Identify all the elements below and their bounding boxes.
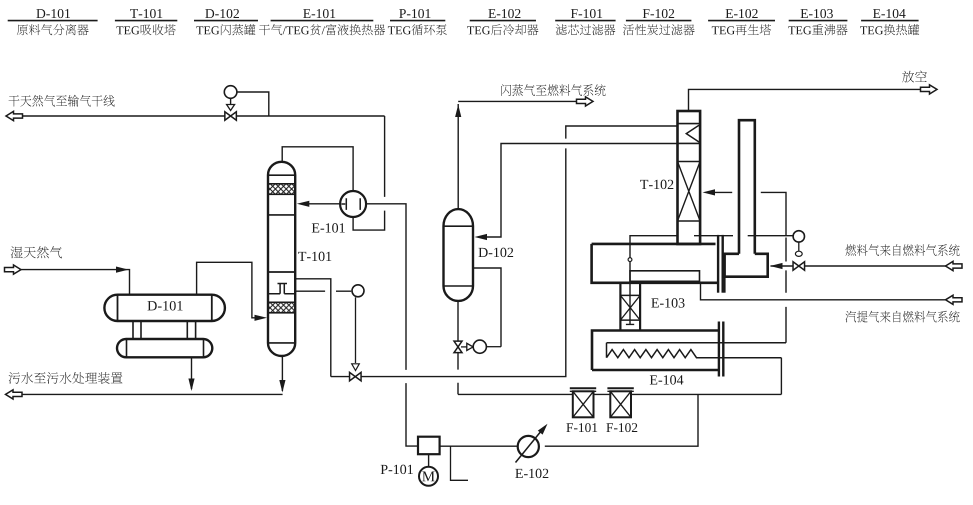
legend name TEG吸收塔 [116, 24, 175, 35]
label T-102 [640, 180, 673, 189]
label T-101 [298, 252, 331, 261]
wire lean TEG into T-101 top [304, 203, 340, 205]
wire dry gas line [23, 115, 385, 117]
legend underline P-101 [390, 20, 445, 22]
open arrow dry gas out [6, 111, 23, 120]
legend tag D-102 [205, 9, 239, 18]
legend tag D-101 [36, 9, 70, 18]
temperature instrument line [694, 235, 793, 237]
T-101 mesh pad top [268, 184, 295, 195]
column T-102 shell [678, 111, 701, 244]
legend tag E-103 [801, 9, 833, 18]
legend name 滤芯过滤器 [556, 24, 616, 35]
open arrow waste water out [6, 390, 23, 399]
label fuel gas from fuel gas system [845, 244, 959, 256]
legend tag E-104 [873, 9, 906, 18]
E-103 fire tube [630, 271, 700, 282]
open arrow fuel gas in [946, 261, 963, 270]
wire wet gas feed line [21, 270, 130, 294]
vessel T-101 shell [268, 175, 295, 343]
label E-104 [650, 375, 684, 384]
label dry gas to pipeline [9, 95, 115, 107]
P-101 motor link [428, 454, 430, 467]
open arrow stripping gas in [946, 295, 963, 304]
surge drum E-104 shell [592, 331, 719, 371]
label D-101 [148, 301, 183, 311]
wire E-102 to P-101 [440, 445, 523, 447]
legend tag P-101 [399, 9, 430, 18]
P-101 motor circle [419, 467, 438, 486]
label stripping gas from fuel gas system [845, 311, 959, 323]
label vent [902, 71, 927, 83]
separator D-101 lower drum [117, 339, 212, 357]
wire rich/lean filter header [458, 393, 781, 395]
legend underline D-102 [194, 20, 258, 22]
control valve PCV stem and wedge [230, 98, 232, 106]
wire dry gas riser from E-101 [353, 116, 385, 230]
wire float to level tap [486, 346, 501, 348]
filter F-101 cap [570, 387, 596, 389]
label F-101 [566, 423, 597, 432]
T-101 mesh pad bottom [268, 302, 295, 313]
filter F-101 X mark [573, 391, 594, 417]
label D-102 [479, 248, 514, 257]
E-104 heating coil [607, 343, 787, 358]
cooler E-102 circle [518, 436, 539, 457]
control valve PCV actuator circle [224, 86, 237, 99]
wire rich TEG from T-102 coil to D-102 [481, 144, 678, 238]
legend underline F-102 [626, 20, 692, 22]
open arrow flash gas out [577, 97, 594, 106]
filter F-102 body [610, 391, 631, 417]
legend underline E-101 [271, 20, 374, 22]
filter F-102 X mark [610, 391, 631, 417]
E-104 right flange [718, 322, 720, 377]
legend tag F-101 [571, 9, 602, 18]
T-101 chimney tray [268, 271, 295, 273]
legend underline E-102 [470, 20, 536, 22]
wire rich TEG draw from chimney tray [295, 126, 677, 377]
wire LC signal to valve [355, 297, 357, 363]
burner box [725, 254, 768, 277]
filter F-102 cap [607, 387, 633, 389]
E-103 right flange [717, 235, 719, 293]
D-101 drum connector pipes [133, 321, 196, 339]
legend underline F-101 [555, 20, 615, 22]
level regulator float link [461, 346, 467, 348]
stripping stack on reboiler [739, 120, 755, 254]
label wet natural gas [11, 246, 62, 258]
level regulator float circle [473, 340, 486, 353]
wire D-101 water drain [191, 357, 193, 389]
label M motor [422, 471, 434, 481]
fuel gas valve stem [798, 242, 800, 251]
wire T-101 overhead to E-101 [282, 147, 353, 191]
legend name TEG换热罐 [860, 24, 919, 35]
legend underline E-104 [861, 20, 919, 22]
wire branch to pump suction [545, 394, 698, 446]
wire PCV sensing line [237, 92, 269, 116]
pump P-101 body [418, 437, 440, 455]
fuel gas control valve actuator circle [793, 231, 804, 242]
wire fuel gas into burner [771, 265, 794, 267]
wire vapor from E-104 into T-102 [710, 192, 787, 342]
E-103 to E-104 downcomer with packing [620, 283, 640, 330]
drain valve on D-102 bottoms [454, 341, 462, 353]
wire stripping gas supply line [701, 283, 946, 300]
level control valve stem wedge [352, 364, 360, 371]
open arrow wet gas in [5, 265, 22, 274]
wire lean TEG E-101 to riser [366, 204, 418, 446]
T-101 seam [268, 214, 295, 216]
separator D-101 upper drum [104, 295, 224, 321]
wire flash gas to fuel system [458, 101, 576, 209]
level control valve body [350, 372, 362, 381]
legend name 干气/TEG贫/富液换热器 [259, 24, 385, 35]
label P-101 [381, 465, 413, 474]
wire fuel gas supply line [805, 265, 946, 267]
legend underline E-103 [789, 20, 848, 22]
legend name TEG重沸器 [788, 24, 847, 35]
T-102 downcomer into E-103 [626, 236, 678, 325]
legend tag T-101 [130, 9, 162, 18]
label E-102 cooler [515, 469, 548, 478]
legend name 原料气分离器 [17, 24, 89, 35]
label flash gas to fuel gas system [501, 84, 605, 96]
label E-103 [651, 298, 684, 307]
label F-102 [606, 423, 637, 432]
fuel gas control valve body [793, 262, 805, 271]
legend tag E-101 [303, 9, 335, 18]
E-101 tube sheet marks [342, 198, 361, 210]
wire D-102 bottoms [457, 302, 459, 395]
filter F-101 body [573, 391, 594, 417]
flash drum D-102 shell [444, 226, 474, 286]
wire D-101 gas to T-101 [197, 262, 259, 318]
wire T-102 vent to flare [689, 89, 921, 111]
reboiler E-103 shell [592, 244, 718, 283]
level controller LC circle on T-101 [295, 290, 351, 292]
T-102 reflux coil band [678, 123, 701, 125]
open arrow vent out [921, 85, 938, 94]
legend name TEG循环泵 [388, 24, 447, 35]
wire D-102 level tap [473, 268, 501, 347]
legend name TEG闪蒸罐 [196, 24, 255, 35]
legend tag E-102 [488, 9, 520, 18]
wire waste water line [22, 393, 283, 395]
legend name TEG后冷却器 [467, 24, 538, 35]
legend underline E-102 [708, 20, 775, 22]
wire E-104 lean TEG outlet to filter header [780, 358, 782, 395]
wire T-101 bottoms outlet [281, 356, 283, 391]
exchanger E-101 shell [340, 191, 366, 217]
control valve PCV body [225, 112, 237, 121]
legend tag F-102 [643, 9, 674, 18]
label waste water [9, 372, 123, 384]
T-102 packing section [678, 161, 701, 163]
legend tag E-102 [726, 9, 758, 18]
legend underline T-101 [115, 20, 177, 22]
legend name TEG再生塔 [712, 24, 771, 35]
label E-101 [312, 223, 345, 232]
legend name 活性炭过滤器 [623, 24, 695, 35]
legend underline D-101 [8, 20, 98, 22]
cooler E-102 diagonal arrow [516, 431, 542, 463]
wire P-101 drain [451, 446, 469, 480]
